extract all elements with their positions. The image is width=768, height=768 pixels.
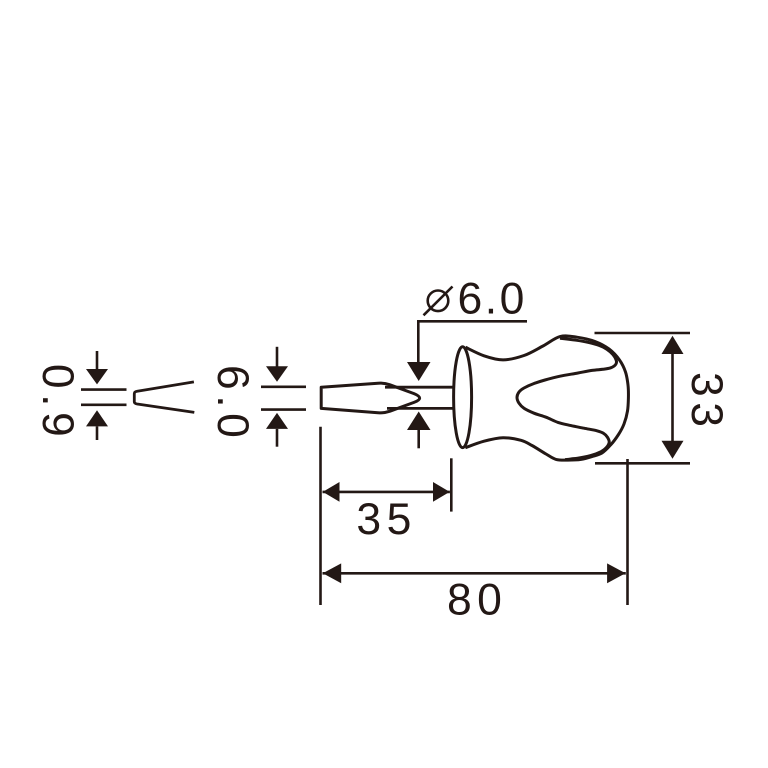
arrowhead 80 left	[323, 563, 341, 583]
blade tip edge view (wedge)	[134, 382, 194, 413]
dimension bar 6.0 top	[261, 385, 306, 388]
svg-text:6.0: 6.0	[208, 365, 257, 443]
label 35	[356, 495, 417, 544]
arrow diameter up to shaft	[407, 412, 431, 431]
arrowhead 33 down	[662, 441, 684, 459]
dimension line 33	[671, 350, 674, 445]
blade front view	[321, 383, 419, 413]
svg-text:0.9: 0.9	[33, 364, 82, 442]
label 6.0 (blade width)	[208, 365, 257, 443]
shaft bottom line	[387, 407, 455, 410]
dimension line 35	[323, 491, 450, 494]
diameter symbol slash	[424, 287, 453, 316]
handle collar	[454, 347, 472, 448]
extension line left 35/80	[319, 427, 322, 605]
svg-text:6.0: 6.0	[458, 275, 527, 324]
shaft top line	[385, 386, 455, 389]
arrowhead diameter down to shaft	[407, 362, 431, 381]
handle outline	[465, 336, 628, 460]
arrowhead 80 right	[607, 563, 625, 583]
diameter symbol circle	[428, 291, 449, 312]
svg-text:80: 80	[447, 575, 508, 624]
leader line diameter	[418, 321, 527, 362]
dimension line 80	[323, 572, 626, 575]
extension line top 33	[595, 332, 691, 335]
svg-text:33: 33	[682, 372, 731, 433]
arrowhead 35 left	[323, 482, 340, 502]
extension line bottom 33	[595, 462, 690, 465]
arrowhead 35 right	[433, 482, 450, 502]
label 6.0 diameter	[458, 275, 527, 324]
dimension bar 0.9 top	[81, 388, 127, 391]
arrow down 0.9	[96, 351, 99, 370]
arrow up 0.9	[86, 410, 108, 426]
label 80	[447, 575, 508, 624]
handle grip recess	[517, 338, 617, 459]
dimension bar 0.9 bottom	[81, 403, 127, 406]
extension line right 80	[626, 459, 629, 605]
arrow down 6.0	[276, 347, 279, 367]
arrowhead 33 up	[662, 336, 684, 354]
extension line right 35	[450, 458, 453, 511]
label 33	[682, 372, 731, 433]
dimension bar 6.0 bottom	[261, 408, 306, 411]
label 0.9 (blade thickness)	[33, 364, 82, 442]
arrow up 6.0	[266, 413, 288, 429]
svg-text:35: 35	[356, 495, 417, 544]
